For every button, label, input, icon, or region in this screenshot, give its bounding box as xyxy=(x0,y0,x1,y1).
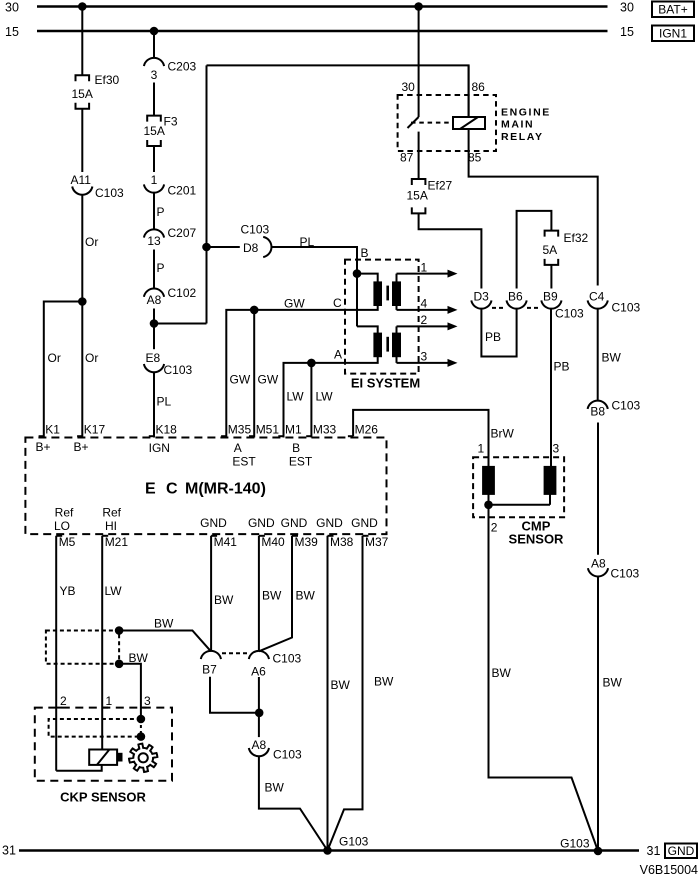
svg-text:15: 15 xyxy=(620,25,634,39)
svg-text:IGN1: IGN1 xyxy=(659,27,687,41)
pin M40 (ECM bottom) xyxy=(259,535,265,537)
transformer T2 primary coil xyxy=(374,334,381,357)
svg-text:GW: GW xyxy=(284,297,305,311)
svg-text:30: 30 xyxy=(402,80,416,94)
wire Ef30 to connector A11 xyxy=(81,109,83,172)
wire EI output 4 xyxy=(396,305,398,310)
inner shield box xyxy=(49,719,141,737)
wire LW M21 to CKP pin 1 xyxy=(101,536,103,750)
svg-text:LW: LW xyxy=(105,584,123,598)
transformer T2 secondary coil xyxy=(393,334,400,357)
connector B9 C103 xyxy=(541,300,561,308)
junction B split xyxy=(353,269,362,278)
svg-text:C207: C207 xyxy=(168,226,197,240)
wire 85 from coil to C4 riser xyxy=(469,129,598,286)
dashed connector line C103 (B7-A6) xyxy=(222,652,248,654)
svg-text:P: P xyxy=(157,205,165,219)
svg-text:B: B xyxy=(292,441,300,455)
svg-text:F3: F3 xyxy=(164,115,178,129)
svg-text:30: 30 xyxy=(620,1,634,15)
wire bus15 to connector C203 xyxy=(153,31,155,58)
wire YB M5 to CKP pin 2 xyxy=(55,536,57,771)
wire B inside EI xyxy=(356,260,358,327)
connector C201 pin 1 xyxy=(144,184,164,192)
svg-text:31: 31 xyxy=(647,844,661,858)
svg-text:C102: C102 xyxy=(168,286,197,300)
connector A8 C103 (right column) xyxy=(588,568,608,576)
svg-text:D8: D8 xyxy=(243,241,259,255)
svg-text:C103: C103 xyxy=(273,748,302,762)
wire BrW M26 to CMP pin 1 xyxy=(353,410,488,467)
svg-text:M26: M26 xyxy=(355,423,379,437)
junction on bus 15 xyxy=(150,27,159,36)
svg-text:Or: Or xyxy=(48,351,61,365)
connector C102 pin A8 xyxy=(144,289,164,297)
wire C102 to junction xyxy=(153,309,155,324)
wire Or to K17 xyxy=(81,302,83,438)
wire A6 below to junction xyxy=(258,677,260,737)
wire LW M33 xyxy=(310,363,312,438)
svg-text:2: 2 xyxy=(491,521,498,535)
wire BW M37 to G103 xyxy=(328,536,363,851)
svg-text:M21: M21 xyxy=(105,535,129,549)
svg-text:PB: PB xyxy=(554,360,570,374)
svg-text:C103: C103 xyxy=(95,186,124,200)
svg-text:M(MR-140): M(MR-140) xyxy=(185,481,266,498)
connector A8 C103 xyxy=(249,748,269,756)
relay box ENGINE MAIN RELAY xyxy=(398,95,496,151)
svg-text:Or: Or xyxy=(85,351,98,365)
wire feed riser x206.5 xyxy=(206,65,208,323)
svg-text:M1: M1 xyxy=(285,423,302,437)
wire CKP pin 2 to pickup xyxy=(56,765,101,771)
svg-text:EST: EST xyxy=(232,455,256,469)
dashed shield link pin 3 xyxy=(140,719,142,737)
wire EI output 2 xyxy=(396,326,398,333)
connector D3 C103 xyxy=(471,300,491,308)
CKP reluctor gear xyxy=(129,744,157,772)
svg-text:A8: A8 xyxy=(147,293,162,307)
junction on bus 30 at relay xyxy=(414,2,423,11)
svg-text:GND: GND xyxy=(281,516,308,530)
wire BW CMP pin 2 to G103 xyxy=(489,505,599,851)
wire Or branch to K1 xyxy=(44,302,83,438)
svg-text:EI SYSTEM: EI SYSTEM xyxy=(351,376,420,391)
wire B to lower primary xyxy=(357,326,378,333)
relay coil diagonal xyxy=(460,117,478,129)
wire B7 below to junction xyxy=(210,677,259,713)
svg-text:GND: GND xyxy=(351,516,378,530)
junction inner shield bottom xyxy=(137,732,146,741)
svg-text:GW: GW xyxy=(230,373,251,387)
svg-text:GND: GND xyxy=(316,516,343,530)
svg-text:M5: M5 xyxy=(59,535,76,549)
wire BW A8 to G103 xyxy=(259,756,328,851)
svg-text:M35: M35 xyxy=(228,423,252,437)
svg-text:C201: C201 xyxy=(168,184,197,198)
svg-text:3: 3 xyxy=(144,694,151,708)
svg-text:BrW: BrW xyxy=(491,427,515,441)
CKP SENSOR box xyxy=(35,708,172,781)
wire EI output 1 xyxy=(396,274,398,283)
svg-text:13: 13 xyxy=(147,234,161,248)
fuse F3 15A xyxy=(147,116,161,122)
svg-text:SENSOR: SENSOR xyxy=(509,532,565,547)
svg-text:15A: 15A xyxy=(407,189,428,203)
CMP coil right xyxy=(545,467,556,494)
pin 2 tick (CKP) xyxy=(56,707,62,709)
svg-text:C: C xyxy=(333,296,342,310)
CKP pickup diagonal xyxy=(97,750,110,765)
wire A from T2 primary xyxy=(284,356,378,437)
wire BW M41 to B7 xyxy=(210,536,212,652)
svg-text:5A: 5A xyxy=(543,243,558,257)
svg-text:B6: B6 xyxy=(508,290,523,304)
svg-text:LW: LW xyxy=(316,390,334,404)
pin K1 (ECM top) xyxy=(39,435,44,437)
pin 1 tick (CKP) xyxy=(102,707,108,709)
wire PB loop D3 to B6 xyxy=(481,308,516,356)
svg-text:Ef27: Ef27 xyxy=(428,179,453,193)
wire B to upper primary xyxy=(357,274,378,283)
wire Ef27 to D3 xyxy=(419,213,482,288)
svg-text:Ef30: Ef30 xyxy=(95,73,120,87)
svg-text:BAT+: BAT+ xyxy=(658,3,687,17)
junction M33 on A wire xyxy=(307,359,316,368)
wire BW shield drain to pin 3 xyxy=(119,664,141,719)
svg-text:15: 15 xyxy=(5,25,19,39)
transformer T1 primary coil xyxy=(374,282,381,305)
junction at D8 branch xyxy=(202,243,211,252)
svg-text:BW: BW xyxy=(602,351,622,365)
ground G103 right xyxy=(594,847,603,856)
svg-text:RELAY: RELAY xyxy=(501,131,544,143)
wire junction to feed riser xyxy=(154,323,207,325)
junction below C102 xyxy=(150,319,159,328)
connector A6 C103 xyxy=(249,651,269,659)
svg-text:M33: M33 xyxy=(313,423,337,437)
wire BW C4 to B8 xyxy=(597,308,599,401)
junction inner shield top xyxy=(137,715,146,724)
connector B6 C103 xyxy=(507,300,527,308)
svg-text:GND: GND xyxy=(668,844,695,858)
connector C4 C103 xyxy=(588,300,608,308)
svg-text:A8: A8 xyxy=(252,738,267,752)
svg-text:M51: M51 xyxy=(256,423,280,437)
svg-text:EST: EST xyxy=(289,455,313,469)
svg-text:A6: A6 xyxy=(251,665,266,679)
wire BW A8 down to G103 xyxy=(597,576,599,851)
CKP pickup pole nub xyxy=(117,753,122,761)
svg-text:M40: M40 xyxy=(261,535,285,549)
dashed connector line C103 (B6-B9) xyxy=(527,307,541,309)
svg-text:2: 2 xyxy=(421,313,428,327)
svg-text:BW: BW xyxy=(265,781,285,795)
EI SYSTEM box xyxy=(345,260,419,374)
wire F3 to connector C201 xyxy=(153,146,155,172)
svg-text:K18: K18 xyxy=(156,423,178,437)
svg-text:86: 86 xyxy=(472,80,486,94)
svg-text:1: 1 xyxy=(106,694,113,708)
svg-text:K17: K17 xyxy=(84,423,106,437)
svg-text:HI: HI xyxy=(105,519,117,533)
relay coil xyxy=(453,117,485,129)
svg-text:BW: BW xyxy=(374,675,394,689)
svg-text:B+: B+ xyxy=(73,440,88,454)
svg-text:PB: PB xyxy=(485,330,501,344)
connector E8 C103 xyxy=(144,364,164,372)
relay switch lower stub to 87 xyxy=(418,132,420,179)
wire C from T1 primary xyxy=(226,305,377,438)
svg-text:GW: GW xyxy=(258,373,279,387)
svg-text:Ref: Ref xyxy=(102,506,121,520)
wire PL E8 to K18 xyxy=(153,372,155,438)
wire GW M51 xyxy=(253,310,255,438)
svg-text:4: 4 xyxy=(421,297,428,311)
CMP right coil stub xyxy=(549,494,551,505)
dashed connector line C103 (D3-B6) xyxy=(492,307,506,309)
svg-text:PL: PL xyxy=(300,235,315,249)
svg-text:C103: C103 xyxy=(273,652,302,666)
svg-text:C: C xyxy=(166,481,178,498)
svg-text:LW: LW xyxy=(287,390,305,404)
IGN1 terminal box xyxy=(652,26,694,42)
wire to connector D8 xyxy=(207,246,240,248)
svg-text:3: 3 xyxy=(151,68,158,82)
wire B6 riser to Ef32 xyxy=(517,211,552,289)
svg-text:BW: BW xyxy=(154,617,174,631)
svg-text:A11: A11 xyxy=(71,173,92,187)
svg-text:C103: C103 xyxy=(164,363,193,377)
connector D8 C103 xyxy=(263,237,271,257)
GND terminal box xyxy=(665,844,697,859)
pin M21 (ECM bottom) xyxy=(102,535,108,537)
wire 86 into coil xyxy=(468,65,470,117)
svg-text:1: 1 xyxy=(478,442,485,456)
svg-text:G103: G103 xyxy=(339,835,369,849)
svg-text:2: 2 xyxy=(60,694,67,708)
junction on bus 30 at Ef30 column xyxy=(78,2,87,11)
svg-text:C203: C203 xyxy=(168,60,197,74)
junction Or split xyxy=(78,297,87,306)
junction CMP pin 2 xyxy=(484,501,493,510)
ECM box xyxy=(25,438,386,535)
junction M51 on C wire xyxy=(250,306,259,315)
junction shield to pin3 drain xyxy=(115,660,124,669)
svg-text:GND: GND xyxy=(200,516,227,530)
shield box upper xyxy=(46,631,119,664)
BAT+ terminal box xyxy=(652,2,694,18)
svg-text:IGN: IGN xyxy=(149,441,170,455)
CMP left coil stub xyxy=(488,494,490,505)
svg-text:LO: LO xyxy=(54,519,70,533)
svg-text:BW: BW xyxy=(262,589,282,603)
svg-text:A8: A8 xyxy=(591,557,606,571)
pin M38 (ECM bottom) xyxy=(328,535,334,537)
fuse Ef27 15A xyxy=(412,179,426,185)
svg-text:BW: BW xyxy=(214,593,234,607)
svg-text:C103: C103 xyxy=(611,567,640,581)
svg-text:M39: M39 xyxy=(295,535,319,549)
svg-text:Or: Or xyxy=(85,235,98,249)
connector C203 pin 3 xyxy=(144,58,164,66)
svg-text:B8: B8 xyxy=(590,405,605,419)
pin K18 (ECM top) xyxy=(149,435,154,437)
wire BW M39 to A6 xyxy=(259,536,292,652)
svg-text:BW: BW xyxy=(129,651,149,665)
svg-text:K1: K1 xyxy=(45,423,60,437)
svg-text:M38: M38 xyxy=(330,535,354,549)
wire C203 to fuse F3 xyxy=(153,83,155,116)
svg-text:BW: BW xyxy=(492,666,512,680)
svg-text:A: A xyxy=(334,348,342,362)
svg-text:B+: B+ xyxy=(35,440,50,454)
svg-text:15A: 15A xyxy=(72,87,93,101)
pin M37 (ECM bottom) xyxy=(363,535,369,537)
svg-text:V6B15004: V6B15004 xyxy=(640,863,698,877)
svg-text:C103: C103 xyxy=(612,399,641,413)
transformer T2 core xyxy=(386,337,389,352)
svg-text:BW: BW xyxy=(296,589,316,603)
svg-text:ENGINE: ENGINE xyxy=(501,107,551,119)
svg-text:E: E xyxy=(145,481,156,498)
svg-text:3: 3 xyxy=(421,350,428,364)
svg-text:D3: D3 xyxy=(474,290,490,304)
svg-text:B: B xyxy=(361,246,369,260)
svg-text:30: 30 xyxy=(5,1,19,15)
wire BW B8 down to connector A8 xyxy=(597,423,599,555)
connector A11 C103 xyxy=(72,187,92,195)
junction shield to B7 drain xyxy=(115,626,124,635)
svg-text:YB: YB xyxy=(60,584,76,598)
svg-text:B9: B9 xyxy=(543,290,558,304)
fuse Ef30 15A xyxy=(76,75,90,81)
svg-text:A: A xyxy=(234,441,242,455)
connector B8 C103 xyxy=(588,401,608,409)
svg-text:BW: BW xyxy=(603,676,623,690)
svg-text:CKP SENSOR: CKP SENSOR xyxy=(60,790,146,805)
svg-text:BW: BW xyxy=(331,678,351,692)
svg-text:1: 1 xyxy=(151,173,158,187)
svg-text:MAIN: MAIN xyxy=(501,119,534,131)
svg-text:G103: G103 xyxy=(560,837,590,851)
fuse Ef32 5A xyxy=(545,231,559,237)
relay switch contact from 30 xyxy=(418,7,420,118)
svg-text:PL: PL xyxy=(157,395,172,409)
wire feed top horizontal to relay 86 xyxy=(207,65,469,117)
pin M33 (ECM top) xyxy=(306,435,311,437)
wire Or A11 down to junction xyxy=(81,194,83,301)
pin M51 (ECM top) xyxy=(249,435,254,437)
CMP coil left xyxy=(483,467,494,494)
pin M5 (ECM bottom) xyxy=(56,535,62,537)
CMP bottom link xyxy=(489,504,551,506)
svg-text:C4: C4 xyxy=(589,290,605,304)
wire BW M40 to A6 xyxy=(258,536,260,652)
wire PL D8 to EI system B xyxy=(271,247,357,274)
transformer T1 secondary coil xyxy=(393,282,400,305)
pin M26 (ECM top) xyxy=(348,435,353,437)
wire P C207 to C102 xyxy=(153,250,155,290)
wire PB B9 down to CMP pin 3 xyxy=(550,308,552,467)
wire bus30 to fuse Ef30 xyxy=(81,7,83,76)
svg-text:C103: C103 xyxy=(555,307,584,321)
pin 3 tick (CKP) xyxy=(141,707,147,709)
wire BW M38 to G103 xyxy=(327,536,329,851)
svg-text:3: 3 xyxy=(553,442,560,456)
pin M41 (ECM bottom) xyxy=(211,535,217,537)
relay actuator dashed link xyxy=(411,122,453,124)
svg-text:Ref: Ref xyxy=(55,506,74,520)
pin M39 (ECM bottom) xyxy=(292,535,298,537)
wire junction down to E8 xyxy=(153,324,155,350)
svg-text:GND: GND xyxy=(248,516,275,530)
svg-text:15A: 15A xyxy=(144,124,165,138)
svg-text:1: 1 xyxy=(421,261,428,275)
CKP pickup coil body xyxy=(89,750,117,765)
svg-text:M37: M37 xyxy=(365,535,389,549)
transformer T1 core xyxy=(386,286,389,301)
wire P C201 to C207 xyxy=(153,192,155,230)
svg-text:B7: B7 xyxy=(202,663,217,677)
connector C207 pin 13 xyxy=(144,229,164,237)
CMP SENSOR box xyxy=(473,457,564,517)
svg-text:M41: M41 xyxy=(214,535,238,549)
svg-text:87: 87 xyxy=(400,151,414,165)
wire EI output 3 xyxy=(396,356,398,363)
svg-text:31: 31 xyxy=(2,844,16,858)
svg-text:C103: C103 xyxy=(241,223,270,237)
pin M35 (ECM top) xyxy=(221,435,226,437)
bus 15 (IGN1) xyxy=(37,30,608,32)
svg-text:85: 85 xyxy=(468,151,482,165)
svg-text:E8: E8 xyxy=(146,351,161,365)
bus 31 (GND) xyxy=(19,849,639,851)
wire BW shield drain to B7 xyxy=(119,631,211,652)
connector B7 C103 xyxy=(201,651,221,659)
svg-text:C103: C103 xyxy=(612,301,641,315)
relay switch blade xyxy=(408,117,419,128)
pin M1 (ECM top) xyxy=(278,435,283,437)
ground G103 left xyxy=(323,846,332,855)
pin K17 (ECM top) xyxy=(77,435,82,437)
svg-text:P: P xyxy=(157,261,165,275)
junction B7/A6 merge xyxy=(255,709,264,718)
wire Ef32 to B9 xyxy=(550,265,552,289)
svg-text:Ef32: Ef32 xyxy=(564,231,589,245)
bus 30 (BAT+) xyxy=(37,5,608,7)
